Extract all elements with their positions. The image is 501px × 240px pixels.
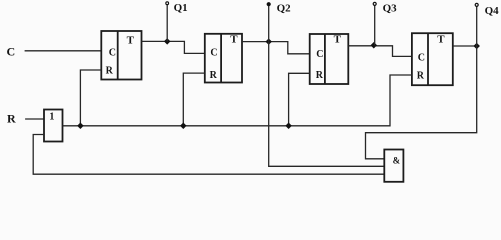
wire and-gate output to U5 lower input <box>33 135 384 175</box>
svg-text:T: T <box>230 33 238 45</box>
svg-text:C: C <box>418 53 425 64</box>
flip-flop U2 (T flip-flop) <box>205 34 242 83</box>
wire U1 R drop <box>80 70 101 126</box>
node rail junction D <box>285 123 292 130</box>
node Q4 junction <box>473 43 480 50</box>
svg-text:C: C <box>109 48 116 59</box>
wire R input <box>25 118 44 120</box>
svg-text:T: T <box>437 34 445 46</box>
node Q2 junction <box>265 38 272 45</box>
svg-text:Q4: Q4 <box>485 5 500 17</box>
wire Q2 stem <box>268 5 270 42</box>
wire U2 T output to U3 C input <box>242 42 310 54</box>
svg-text:1: 1 <box>49 111 54 122</box>
svg-text:Q2: Q2 <box>277 2 292 14</box>
flip-flop U3 (T flip-flop) <box>310 34 349 84</box>
wire Q1 stem <box>166 5 168 42</box>
wire U1 T output to U2 C input <box>142 41 206 53</box>
terminal Q1 <box>166 2 169 5</box>
terminal Q4 <box>475 3 478 6</box>
svg-text:C: C <box>210 48 217 59</box>
terminal Q3 <box>373 2 376 5</box>
wire U2 R drop <box>183 73 205 126</box>
flip-flop U1 (T flip-flop) <box>101 31 141 80</box>
svg-text:Q1: Q1 <box>174 2 188 14</box>
node Q3 junction <box>371 42 378 49</box>
wire Q4 feedback to and-gate <box>366 46 477 159</box>
svg-text:C: C <box>316 49 323 60</box>
svg-text:R: R <box>7 111 16 125</box>
wire C input <box>25 50 101 52</box>
and-gate U6 (&) <box>384 150 403 182</box>
wire U4 T output <box>453 45 477 47</box>
wire U3 R drop <box>289 73 310 126</box>
or-gate U5 (1) <box>44 110 63 142</box>
svg-text:R: R <box>210 70 218 81</box>
svg-text:R: R <box>106 66 114 77</box>
svg-text:C: C <box>7 44 16 58</box>
wire Q4 stem <box>476 6 478 46</box>
node rail junction A <box>77 123 84 130</box>
svg-text:R: R <box>417 70 425 81</box>
svg-text:Q3: Q3 <box>383 2 398 14</box>
flip-flop U4 (T flip-flop) <box>412 33 453 85</box>
svg-text:R: R <box>316 70 324 81</box>
node rail junction B <box>180 123 187 130</box>
svg-text:T: T <box>334 33 342 45</box>
wire U3 T output to U4 C input <box>348 46 412 57</box>
svg-text:T: T <box>127 35 135 47</box>
node Q1 junction <box>164 38 171 45</box>
svg-text:&: & <box>393 155 401 165</box>
wire U5 output / reset rail <box>63 75 412 126</box>
wire Q3 stem <box>374 5 376 45</box>
terminal Q2 <box>267 3 270 6</box>
wire Q2 feedback to and-gate <box>269 42 385 167</box>
